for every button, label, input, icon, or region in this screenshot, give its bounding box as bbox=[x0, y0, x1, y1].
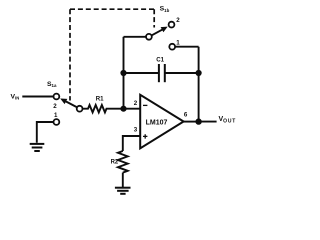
node: C1 right junction bbox=[196, 70, 202, 76]
wire: VIN to S1a contact 2 bbox=[22, 96, 53, 98]
wire: op-amp output to node bbox=[184, 121, 199, 123]
svg-text:1: 1 bbox=[176, 40, 180, 47]
svg-text:3: 3 bbox=[134, 127, 138, 134]
wire: top horizontal to S1b pivot bbox=[124, 36, 147, 38]
svg-text:2: 2 bbox=[134, 100, 138, 107]
node: output junction bbox=[195, 118, 201, 124]
wire: hold vertical (S1b contact 1 down to output node) bbox=[198, 47, 200, 122]
wire: R2 to ground bbox=[122, 173, 124, 187]
ground (R2) bbox=[115, 188, 131, 194]
svg-text:R1: R1 bbox=[96, 96, 104, 103]
switch S1b wiper arm with arrowhead bbox=[151, 29, 162, 35]
wire: feedback vertical (inverting node up to S1b) bbox=[123, 37, 125, 109]
wire: inverting node to op-amp pin 2 bbox=[124, 108, 141, 110]
capacitor C1 bbox=[159, 64, 165, 82]
ground (input side) bbox=[30, 144, 45, 151]
switch S1a pivot bbox=[77, 106, 83, 112]
wire: S1b contact 1 to hold line bbox=[175, 46, 199, 48]
switch coupling dashed line (left, down to S1a) bbox=[69, 9, 71, 100]
op-amp inverting input marker bbox=[143, 104, 147, 106]
wire: op-amp pin 3 to R2 bbox=[123, 136, 140, 151]
switch S1a wiper arm with arrowhead bbox=[66, 101, 77, 107]
switch S1a contact 2 bbox=[54, 94, 60, 100]
switch S1b contact 1 bbox=[169, 44, 175, 50]
svg-text:LM107: LM107 bbox=[146, 119, 168, 126]
svg-text:S1b: S1b bbox=[160, 6, 170, 13]
svg-text:VOUT: VOUT bbox=[219, 116, 237, 124]
op-amp U1 LM107 bbox=[140, 95, 183, 149]
svg-text:6: 6 bbox=[184, 111, 188, 118]
svg-text:VIN: VIN bbox=[11, 94, 20, 101]
switch coupling dashed line (top) bbox=[70, 8, 154, 10]
wire: node to C1 left plate bbox=[124, 72, 159, 74]
svg-text:1: 1 bbox=[54, 112, 58, 119]
resistor R1 bbox=[82, 105, 121, 112]
svg-text:C1: C1 bbox=[156, 57, 164, 64]
node: C1 left junction bbox=[120, 70, 126, 76]
node: inverting input junction bbox=[120, 106, 126, 112]
switch coupling dashed line (right, down to S1b) bbox=[153, 9, 155, 27]
wire: S1a contact 1 to ground bbox=[37, 122, 54, 143]
switch S1a contact 1 bbox=[54, 119, 60, 125]
wire: output node to VOUT terminal bbox=[199, 121, 217, 123]
svg-text:S1a: S1a bbox=[47, 81, 57, 88]
switch S1b pivot bbox=[146, 34, 152, 40]
wire: C1 right plate to hold line bbox=[165, 72, 199, 74]
svg-text:2: 2 bbox=[53, 103, 57, 110]
svg-text:R2: R2 bbox=[111, 159, 119, 165]
resistor R2 bbox=[118, 151, 128, 173]
op-amp non-inverting input marker bbox=[143, 134, 147, 138]
svg-text:2: 2 bbox=[176, 17, 180, 24]
switch S1b contact 2 bbox=[169, 22, 175, 28]
